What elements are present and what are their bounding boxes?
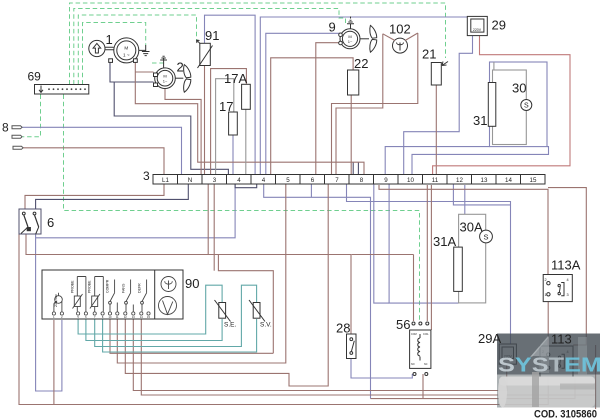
wire cell6-long-drop (264, 185, 371, 399)
svg-text:1~: 1~ (163, 79, 168, 84)
wire cell4a-to-6 (36, 185, 236, 238)
wire 17A-pi-feed (211, 69, 247, 175)
svg-text:17: 17 (219, 99, 233, 114)
svg-text:29A: 29A (478, 331, 501, 346)
svg-text:S.V.: S.V. (260, 322, 272, 329)
wire 6-to-56-h (352, 254, 414, 256)
svg-text:91: 91 (205, 28, 219, 43)
terminal block 69 dots (48, 88, 86, 90)
svg-text:9: 9 (384, 177, 388, 184)
wire 56-to-113 (371, 374, 576, 399)
svg-text:8: 8 (2, 121, 9, 135)
relay coil 56 (410, 322, 431, 376)
wire cell9b-down (374, 185, 389, 304)
svg-text:PROBE: PROBE (71, 280, 75, 293)
fan motor9 (360, 25, 377, 52)
svg-text:1~: 1~ (348, 39, 353, 44)
svg-text:11: 11 (432, 177, 439, 184)
wire motor1-to-cell4a (114, 82, 228, 175)
svg-text:NO: NO (411, 363, 415, 366)
wire cell12-to-30Aloop (464, 185, 466, 214)
wire cell12b-to-29A (453, 185, 510, 205)
svg-text:90: 90 (185, 276, 199, 291)
wire 30-31-to-cell9 (385, 147, 489, 175)
wire motor9foot1-left (266, 33, 340, 174)
connector 8 plugs (12, 126, 23, 150)
sensor 30A (480, 230, 493, 243)
board 90 terminal digits (53, 315, 150, 319)
svg-text:102: 102 (389, 22, 411, 37)
wire 29blue-to-cell10 (404, 35, 473, 175)
svg-text:1 ~: 1 ~ (123, 53, 130, 58)
wire 30-31-loop-link (493, 62, 495, 70)
svg-text:M: M (124, 46, 128, 51)
wire cell11-to-56 (426, 185, 428, 321)
wire blue-29top-to-cell4b (260, 17, 474, 174)
svg-text:DEFR: DEFR (138, 283, 142, 293)
wire 6-to-56-branch (413, 255, 415, 322)
wire 21-to-cell11 (435, 85, 437, 174)
svg-text:COM: COM (411, 333, 417, 336)
arrow 21 (442, 62, 448, 66)
transformer 29 (467, 16, 487, 35)
wire earth F 69-to-plug8 (23, 95, 41, 137)
wire motor1-foot1-to-motor2 (110, 61, 154, 82)
svg-text:30: 30 (512, 81, 526, 96)
wire hairpin-cell3b (213, 185, 215, 271)
switch 6 (19, 209, 41, 234)
svg-text:S.E.: S.E. (224, 322, 236, 329)
wire earth motor2 (152, 58, 164, 63)
transformer 29A (499, 344, 516, 364)
wire right-edge-vertical (595, 345, 597, 409)
wire plug8-to-N (22, 127, 182, 174)
wire plug8-to-L1 (23, 148, 165, 174)
board 90 internals (54, 277, 177, 315)
WIRES-TEAL (78, 285, 257, 352)
relay 113 pin labels (542, 350, 569, 371)
svg-text:8: 8 (360, 177, 364, 184)
fuse 21 (431, 63, 441, 86)
wire board-r4 (133, 319, 506, 391)
wire 17-pi-feed (216, 79, 234, 175)
wire board-r5 (141, 319, 595, 395)
svg-text:S: S (483, 233, 488, 242)
wire t1 board-to-SE-top (78, 285, 222, 334)
WIRES-GRAY (216, 62, 527, 303)
wire motor9foot2-left (316, 43, 341, 174)
svg-text:3: 3 (143, 169, 150, 183)
sensor 30 (521, 100, 532, 111)
motor M1 text (123, 46, 130, 58)
wire 30A-31A heater loop (459, 214, 486, 303)
wire 30-31 outer loop (490, 62, 548, 147)
svg-text:2: 2 (545, 278, 547, 282)
wire earth E 69-to-56 (64, 95, 420, 322)
wire N-to-6 (36, 185, 189, 210)
svg-text:113A: 113A (551, 258, 581, 273)
pump circle of motor 1 (89, 40, 105, 56)
controller board 90 (42, 270, 183, 319)
wire bottom-long (19, 234, 548, 405)
svg-text:14: 14 (505, 177, 512, 184)
wire earth D 69-to-motor1 (83, 23, 146, 85)
svg-text:17A: 17A (224, 71, 247, 86)
wire 91top-to-cell4b (205, 15, 256, 174)
wire t3 board-to-SV-top (95, 285, 257, 346)
wire cell8-bundle2 (357, 162, 359, 174)
svg-text:29: 29 (492, 18, 506, 33)
WIRES-NAVY (36, 61, 359, 209)
wire cell9-to-30Aloop-bottom (389, 185, 459, 304)
sensor S.V. (249, 300, 265, 322)
wire motor1-to-motor2-top (135, 71, 153, 73)
svg-text:6: 6 (311, 177, 315, 184)
board 90 terminal circles (52, 312, 150, 315)
ground motor9 (347, 17, 354, 29)
wire earth C 69-to-91 (78, 15, 196, 85)
svg-text:10: 10 (407, 177, 414, 184)
svg-text:31A: 31A (433, 234, 456, 249)
wire board-r1 (110, 319, 273, 353)
svg-text:4: 4 (567, 278, 569, 282)
motor M2 text (163, 74, 168, 84)
motor M9 text (348, 34, 353, 44)
svg-text:COD. 3105860: COD. 3105860 (534, 409, 597, 420)
svg-text:9: 9 (329, 20, 336, 35)
wire board-r3 (125, 185, 328, 387)
wire 28-to-56 (351, 359, 412, 379)
wire 30-31-to-cell10 (412, 147, 549, 175)
svg-text:31: 31 (473, 113, 487, 128)
WIRES-GREEN (23, 3, 446, 321)
wire board-r2 (117, 185, 285, 364)
svg-text:1: 1 (545, 293, 547, 297)
svg-text:1: 1 (106, 32, 113, 47)
svg-text:56: 56 (396, 317, 410, 332)
svg-text:5: 5 (286, 177, 290, 184)
svg-text:L1: L1 (162, 177, 169, 184)
WIRES-RED (433, 35, 570, 174)
svg-text:3: 3 (567, 293, 569, 297)
svg-text:2: 2 (177, 60, 184, 75)
wire 22-top-to-cell4b (271, 58, 353, 175)
svg-text:13: 13 (481, 177, 488, 184)
wire hairpin-link (218, 255, 273, 354)
svg-text:15: 15 (530, 177, 537, 184)
svg-text:4: 4 (237, 177, 241, 184)
svg-text:3: 3 (213, 177, 217, 184)
svg-text:S: S (524, 103, 529, 110)
wire earth A 69-to-21 (70, 3, 446, 85)
wire motor2-bottom-to-cell3 (165, 89, 201, 175)
wire t2 SE-bottom-to-board (86, 319, 222, 341)
svg-text:22: 22 (354, 56, 368, 71)
shaft motor1 (105, 47, 114, 50)
motor M9 (339, 29, 360, 49)
wire cell6-stub (310, 185, 312, 198)
wire branch-to-113-pin4 (548, 188, 586, 345)
svg-text:COMPR: COMPR (106, 279, 110, 293)
wire 91bottom-down1 (204, 66, 206, 175)
svg-text:PROBE: PROBE (88, 280, 92, 293)
varistor 91 (197, 40, 213, 68)
wire 17bottom-to-strip (232, 135, 234, 174)
svg-text:220V: 220V (473, 28, 482, 32)
svg-text:28: 28 (336, 321, 350, 336)
wire 102-left-drop (336, 34, 383, 175)
svg-text:6: 6 (47, 215, 54, 230)
svg-text:4: 4 (262, 177, 266, 184)
wire 17A-bottom (245, 109, 247, 174)
wire 102-right-drop (332, 33, 418, 175)
relay 113 (540, 346, 573, 377)
relay 56 tiny labels (411, 333, 429, 366)
svg-text:7: 7 (335, 177, 339, 184)
wire motor1-foot2-chain (135, 61, 364, 174)
sensor S.E. (215, 300, 231, 322)
wire cell4-jog (235, 185, 257, 188)
wire t4 SV-bottom-to-board (103, 319, 257, 352)
wire 6-to-board-N (36, 234, 62, 391)
relay 113A pin labels (545, 278, 569, 297)
svg-text:113: 113 (551, 332, 572, 347)
motor M1 (109, 38, 139, 63)
wire 6-to-28 (26, 234, 351, 334)
fuse 22 (348, 70, 359, 95)
switch 28 (347, 334, 357, 359)
watermark SYSTEM text (498, 355, 600, 377)
svg-text:SYSTEM: SYSTEM (498, 355, 600, 377)
motor M2 (154, 68, 176, 89)
terminal block 69 (35, 85, 89, 95)
wire 113A-to-113 (547, 302, 549, 346)
svg-text:NC: NC (424, 363, 428, 366)
wire cell9-to-113A (379, 185, 548, 275)
svg-text:N: N (188, 177, 192, 184)
svg-text:FANS: FANS (122, 283, 126, 293)
terminal strip 3 cell labels (162, 177, 537, 184)
terminal strip 3 (153, 175, 545, 185)
fuse 17 (229, 112, 238, 135)
heater 31 (488, 83, 496, 127)
svg-text:21: 21 (422, 47, 436, 62)
svg-text:230 Vac: 230 Vac (54, 294, 58, 307)
ground motor2 (160, 56, 167, 67)
svg-text:30A: 30A (460, 220, 483, 235)
wire L1-to-6 (25, 185, 164, 210)
fan motor2 (175, 65, 191, 93)
wire earth B 69-to-fan9 (74, 9, 346, 85)
heater 31A (454, 247, 463, 291)
wire cell7-to-29A (347, 185, 511, 345)
wire cell8-bundle1 (352, 162, 354, 174)
watermark backdrop (497, 334, 600, 408)
svg-text:69: 69 (28, 70, 42, 84)
fuse 17A (242, 84, 251, 109)
wire cell11b-down (430, 185, 432, 330)
lamp 102 V-wires (383, 33, 418, 41)
wire hairpin-cell3a (207, 185, 209, 255)
svg-text:COIL: COIL (423, 333, 429, 336)
wire 30-31 heater loop (493, 70, 527, 145)
wire 29red-to-cell11 (433, 35, 570, 174)
wire 22-to-cell8 (351, 95, 353, 174)
svg-text:12: 12 (456, 177, 463, 184)
relay 113A (543, 275, 572, 302)
board 90 vertical texts (54, 279, 142, 307)
lamp 102 (393, 38, 408, 53)
ground motor1 (139, 45, 150, 56)
wire board-L-tap (53, 320, 55, 405)
